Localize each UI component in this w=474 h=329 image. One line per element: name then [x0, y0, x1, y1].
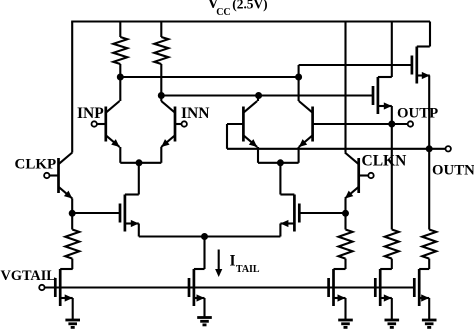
- label VCC (2.5V): [208, 0, 268, 18]
- svg-text:CLKN: CLKN: [362, 153, 407, 170]
- wire R6 to M8 drain: [428, 259, 430, 269]
- label CLKP: [15, 157, 57, 173]
- wire M0 source down: [72, 298, 74, 320]
- transistor M8 (OUTN branch sink): [414, 269, 429, 306]
- wire VGTAIL bias line: [45, 286, 415, 288]
- svg-text:OUTN: OUTN: [432, 163, 474, 179]
- wire Q3 base loop down: [226, 124, 228, 149]
- resistor R2 (right load): [154, 37, 168, 64]
- wire VCC to M5 drain: [391, 22, 393, 78]
- node OUTN: [426, 145, 433, 152]
- wire VCC to Q5 collector: [71, 22, 73, 153]
- wire OUTP down to R5: [391, 124, 393, 230]
- wire VCC to M7 drain: [429, 22, 431, 47]
- wire Q4 emitter down: [298, 147, 300, 163]
- wire latch tail to M2 drain: [279, 163, 281, 195]
- wire M3 source down: [203, 298, 205, 318]
- wire M2 gate to CLKN node: [299, 212, 345, 214]
- svg-text:TAIL: TAIL: [236, 264, 260, 275]
- label I_TAIL: [230, 253, 260, 275]
- wire OUTN net (Q3 base to follower): [227, 148, 429, 150]
- ground at M8: [422, 320, 437, 327]
- svg-text:CC: CC: [216, 7, 230, 18]
- ground at M0: [65, 320, 80, 327]
- transistor M5 (OUTP source follower): [373, 77, 392, 114]
- wire tail to M1 drain: [138, 163, 140, 195]
- wire R2 to node B: [160, 64, 162, 96]
- transistor Q2 (INN): [161, 101, 175, 147]
- resistor R4 (CLKN level shift): [339, 230, 353, 259]
- wire M2 source down: [279, 224, 281, 237]
- transistor M4 (CLKN branch sink): [329, 269, 346, 306]
- current arrow I_TAIL: [215, 250, 222, 278]
- wire M8 source down: [428, 298, 430, 320]
- wire latch common emitter: [258, 162, 299, 164]
- label VGTAIL: [1, 268, 56, 284]
- terminal VGTAIL: [39, 285, 44, 290]
- transistor M2 (right clock switch): [280, 195, 299, 232]
- wire OUTP stub: [392, 123, 408, 125]
- wire OUTN down to R6: [428, 149, 430, 230]
- node A junction at Q4 collector: [295, 74, 302, 81]
- terminal OUTP: [408, 121, 413, 126]
- node switch common source: [201, 233, 208, 240]
- wire VCC to R1: [119, 22, 121, 38]
- node B junction at R2: [158, 92, 165, 99]
- resistor R1 (left load): [113, 37, 127, 64]
- wire INN base lead: [175, 123, 184, 125]
- svg-text:CLKP: CLKP: [15, 157, 57, 173]
- wire M1 source down: [138, 224, 140, 237]
- resistor R6 (OUTN load): [422, 230, 436, 259]
- VCC power rail: [71, 20, 430, 22]
- label OUTN: [432, 163, 474, 179]
- terminal INP: [92, 121, 97, 126]
- node input pair tail: [136, 159, 143, 166]
- svg-text:(2.5V): (2.5V): [232, 0, 267, 11]
- wire VCC to R2: [160, 22, 162, 38]
- node CLKN follower output: [342, 210, 349, 217]
- wire Q3 emitter down: [257, 147, 259, 163]
- wire R3 to M0 drain: [71, 259, 73, 269]
- transistor Q1 (INP): [106, 101, 120, 147]
- wire INP base lead: [94, 123, 106, 125]
- svg-text:INP: INP: [77, 105, 104, 122]
- label CLKN: [362, 153, 407, 170]
- wire M4 source down: [344, 298, 346, 320]
- node A junction at R1: [117, 74, 124, 81]
- label INN: [181, 105, 209, 122]
- wire Q3 base lead: [227, 123, 243, 125]
- label OUTP: [397, 106, 438, 122]
- node B junction at Q3 collector: [255, 92, 262, 99]
- resistor R5 (OUTP load): [385, 230, 399, 259]
- ground at M4: [338, 320, 353, 327]
- label INP: [77, 105, 104, 122]
- wire node down to R3: [71, 213, 73, 229]
- wire switch common source: [139, 235, 281, 237]
- ground at M6: [385, 320, 400, 327]
- wire Q6 emitter down: [344, 199, 346, 214]
- wire R4 to M4 drain: [344, 259, 346, 269]
- wire R1 to node A: [119, 64, 121, 77]
- wire Q4 collector to node A: [298, 77, 300, 101]
- transistor Q5 (CLKP emitter follower): [59, 153, 73, 199]
- wire OUTP net (Q4 base to follower): [313, 123, 392, 125]
- wire input pair common emitter: [120, 162, 161, 164]
- node latch tail: [277, 159, 284, 166]
- resistor R3 (CLKP level shift): [65, 230, 79, 259]
- node A wire: [120, 76, 298, 78]
- transistor M7 (OUTN source follower): [412, 47, 430, 84]
- transistor M3 (tail current source): [189, 269, 205, 306]
- wire Q1 emitter down: [119, 147, 121, 163]
- terminal CLKN: [368, 173, 373, 178]
- transistor Q6 (CLKN emitter follower): [345, 153, 359, 199]
- wire Q2 emitter down: [160, 147, 162, 163]
- transistor M0 (VGTAIL device): [55, 269, 72, 306]
- wire M6 source down: [391, 298, 393, 320]
- wire Q2 collector to node B: [160, 96, 162, 102]
- wire Q3 collector to node B: [257, 96, 259, 102]
- terminal OUTN: [446, 146, 451, 151]
- wire M5 source to OUTP node: [391, 106, 393, 124]
- wire node A riser to M7 gate: [299, 65, 412, 77]
- svg-text:I: I: [230, 253, 236, 270]
- wire Q1 collector to node A: [119, 77, 121, 101]
- wire common source to M3 drain: [203, 237, 205, 270]
- wire CLKN base lead: [359, 174, 371, 176]
- svg-text:OUTP: OUTP: [397, 106, 438, 122]
- transistor M1 (left clock switch): [120, 195, 139, 232]
- svg-text:INN: INN: [181, 105, 209, 122]
- wire node to M1 gate: [72, 212, 120, 214]
- wire OUTN stub: [429, 148, 445, 150]
- terminal CLKP: [44, 173, 49, 178]
- svg-text:VGTAIL: VGTAIL: [1, 268, 56, 284]
- transistor Q3 (latch left): [243, 101, 257, 147]
- node B wire: [161, 94, 372, 96]
- wire M7 source to OUTN node: [428, 76, 430, 149]
- node OUTP: [388, 121, 395, 128]
- node CLKP follower output: [69, 210, 76, 217]
- terminal INN: [182, 121, 187, 126]
- wire CLKP base lead: [47, 174, 59, 176]
- wire VCC to Q6 collector: [344, 22, 346, 153]
- transistor M6 (OUTP branch sink): [375, 269, 392, 306]
- ground at M3: [197, 318, 212, 325]
- wire R5 to M6 drain: [391, 259, 393, 269]
- transistor Q4 (latch right): [299, 101, 313, 147]
- wire node down to R4: [344, 213, 346, 229]
- wire Q5 emitter down: [71, 199, 73, 214]
